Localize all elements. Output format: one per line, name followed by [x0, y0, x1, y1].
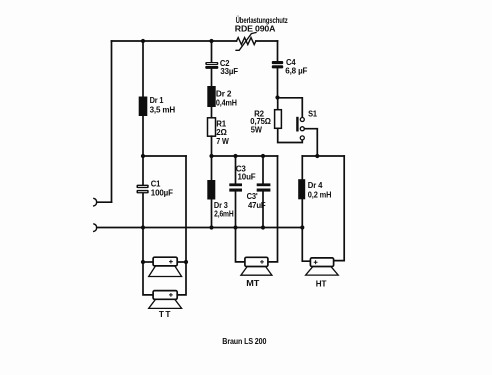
wire C3' branch lower [262, 192, 264, 228]
svg-text:RDE 090A: RDE 090A [235, 24, 276, 34]
svg-text:47uF: 47uF [248, 200, 266, 210]
node return/HT junction [300, 225, 304, 229]
svg-text:0,4mH: 0,4mH [216, 97, 237, 107]
wire top rail right segment [256, 40, 278, 42]
speaker TT2 [149, 291, 182, 309]
svg-text:Dr 4: Dr 4 [308, 180, 323, 190]
wire return rail [97, 227, 302, 229]
capacitor C4 [272, 61, 283, 68]
wire Dr1 branch lower [142, 116, 144, 156]
wire junction to switch top [278, 98, 303, 118]
wire TT left feed [143, 228, 153, 295]
inductor Dr4 [298, 179, 305, 199]
node TT left speaker1 [141, 260, 145, 264]
svg-text:33µF: 33µF [220, 66, 238, 76]
overload protector RDE 090A zigzag [237, 38, 256, 45]
wire J1 to left rail [97, 201, 112, 203]
node HT feed junction [315, 154, 319, 158]
wire HT right rail [334, 156, 345, 261]
node return at Dr3 [209, 225, 213, 229]
wire switch output to HT rail [304, 129, 317, 156]
wire TT speaker1 left [143, 261, 153, 263]
wire HT left rail lower [302, 199, 310, 261]
wire C1 branch lower [142, 194, 144, 228]
node C4/R2/S1 junction [275, 95, 279, 99]
switch S1 contacts [300, 118, 304, 140]
wire C2 to Dr2 [211, 69, 213, 86]
switch S1 lever [296, 118, 298, 130]
node top rail at Dr1 [141, 39, 145, 43]
svg-text:10uF: 10uF [238, 172, 256, 182]
wire HT left rail upper [301, 156, 303, 179]
svg-text:6,8 µF: 6,8 µF [285, 66, 307, 76]
wire R1 to MT rail [211, 136, 213, 156]
wire TT speaker1 right [177, 261, 186, 263]
node TT right speaker1 [184, 260, 188, 264]
wire HT top rail [302, 155, 344, 157]
resistor R1 [208, 118, 216, 136]
speaker MT [241, 257, 272, 275]
wire Dr2 to R1 [211, 107, 213, 118]
wire C2 branch upper [211, 41, 213, 62]
capacitor C1 [137, 185, 149, 194]
overload protector slash [236, 33, 256, 51]
node return at C3' [261, 225, 265, 229]
node MT rail at R1 [209, 154, 213, 158]
capacitor C2 [205, 62, 218, 69]
input terminal J2 (bottom) [94, 224, 97, 232]
input terminal J1 (top) [94, 198, 97, 206]
capacitor C3 [229, 183, 242, 191]
svg-text:2,6mH: 2,6mH [214, 208, 234, 218]
node TT top rail junction [141, 154, 145, 158]
capacitor C3' [257, 183, 271, 191]
wire MT right rail [268, 156, 278, 262]
wire C4 branch upper [277, 41, 279, 61]
svg-text:0,2 mH: 0,2 mH [308, 190, 332, 200]
inductor Dr1 [139, 97, 148, 117]
svg-text:5W: 5W [251, 124, 262, 134]
wire C3 branch lower [235, 192, 237, 228]
wire C3' branch upper [262, 156, 264, 183]
wire MT top rail [212, 155, 278, 157]
svg-text:T T: T T [159, 309, 170, 319]
speaker TT1 [149, 257, 182, 276]
wire R2 bottom to switch bottom [278, 128, 303, 142]
resistor R2 [275, 110, 282, 129]
svg-text:S1: S1 [308, 108, 317, 118]
svg-text:100µF: 100µF [151, 187, 173, 197]
node MT rail at C3' [261, 154, 265, 158]
node return at C3 [233, 225, 237, 229]
svg-text:7 W: 7 W [216, 136, 229, 146]
inductor Dr2 [207, 86, 215, 107]
svg-text:HT: HT [316, 278, 327, 288]
wire C3 branch upper [235, 156, 237, 183]
node return at C1 [141, 225, 145, 229]
wire Dr3 branch lower [211, 200, 213, 228]
speaker HT [306, 258, 339, 275]
wire C1 branch upper [142, 156, 144, 185]
wire left rail [111, 41, 113, 202]
wire Dr3 branch upper [211, 156, 213, 180]
node MT rail at C3 [233, 154, 237, 158]
wire TT top rail [143, 155, 186, 157]
wire top rail left segment [112, 40, 237, 42]
wire C4 to junction [277, 68, 279, 97]
wire TT right rail [177, 156, 186, 295]
inductor Dr3 [207, 180, 215, 200]
wire junction to R2 top [277, 98, 279, 110]
svg-text:MT: MT [246, 278, 259, 288]
svg-text:3,5 mH: 3,5 mH [150, 104, 176, 114]
svg-text:Braun LS 200: Braun LS 200 [222, 336, 266, 346]
wire Dr1 branch upper [142, 41, 144, 97]
wire MT left feed [236, 228, 245, 262]
node top rail at C2 [209, 39, 213, 43]
